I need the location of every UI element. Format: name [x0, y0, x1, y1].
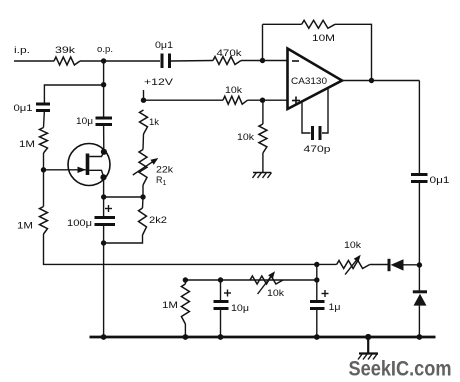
resistor 10k to ground	[237, 124, 267, 153]
svg-text:SeekIC.com: SeekIC.com	[349, 358, 452, 381]
wire +12V stub	[143, 90, 145, 100]
wire feedback up	[262, 24, 264, 60]
capacitor 0μ1 coupling	[155, 40, 173, 68]
wire 1k to 22k	[142, 134, 145, 150]
node o.p.	[97, 44, 113, 64]
node rail right	[417, 334, 423, 340]
svg-text:1k: 1k	[149, 117, 160, 127]
svg-text:o.p.: o.p.	[97, 44, 113, 54]
wire 22k to node	[142, 185, 144, 197]
diode D1	[389, 259, 419, 271]
wire 1μ branch	[316, 265, 318, 302]
resistor 1M lower	[17, 207, 48, 235]
wire 2k2 bottom	[104, 235, 143, 243]
node rail ground	[365, 334, 371, 340]
wire op node down	[103, 61, 105, 117]
svg-text:470p: 470p	[304, 144, 331, 154]
wire 1M top stub	[184, 280, 186, 284]
node source junction right	[140, 194, 145, 199]
svg-text:1μ: 1μ	[329, 302, 341, 312]
capacitor 10μ bottom	[214, 277, 250, 313]
node to left cap branch	[101, 82, 106, 87]
svg-text:10k: 10k	[225, 85, 243, 95]
potentiometer 10k right	[337, 240, 370, 275]
wire left rail to bottom	[44, 234, 337, 264]
capacitor 1μ	[310, 290, 341, 312]
resistor 1k	[140, 110, 160, 134]
node rail 10μ	[218, 334, 224, 340]
svg-text:+12V: +12V	[144, 77, 173, 87]
wire pot to diode	[370, 264, 388, 266]
svg-text:10μ: 10μ	[76, 116, 93, 126]
wire cap to 470k	[171, 60, 213, 63]
wire 10μ to rail	[220, 309, 222, 338]
node non-inverting input	[260, 98, 265, 103]
capacitor 100μ	[67, 205, 115, 228]
wire branch to left	[44, 85, 103, 104]
svg-text:1M: 1M	[17, 221, 33, 231]
wire diode to rail	[418, 306, 420, 337]
node rail 1	[101, 334, 107, 340]
svg-text:10k: 10k	[237, 132, 255, 142]
svg-text:10k: 10k	[344, 240, 362, 250]
resistor 470k	[213, 48, 242, 65]
node bias left	[183, 277, 188, 282]
svg-text:10μ: 10μ	[231, 303, 249, 313]
wire source down	[103, 177, 105, 217]
wire output	[342, 80, 419, 82]
ground rail	[90, 336, 436, 339]
svg-text:0μ1: 0μ1	[155, 40, 173, 50]
node +12V	[141, 98, 146, 103]
node output	[369, 78, 374, 83]
svg-text:1M: 1M	[162, 300, 178, 310]
svg-text:R1: R1	[156, 175, 167, 187]
wire feedback top right	[335, 24, 372, 80]
wire cap to 1M	[43, 111, 46, 128]
node 100μ bottom	[101, 240, 106, 245]
capacitor 0μ1 input	[14, 103, 51, 113]
wire +12V to 10k	[144, 99, 224, 101]
resistor 1M bottom	[162, 284, 189, 324]
svg-text:2k2: 2k2	[149, 215, 167, 225]
diode D2	[413, 292, 427, 306]
wire feedback top left	[263, 23, 302, 25]
svg-text:1M: 1M	[19, 139, 35, 149]
wire 22k node to 2k2	[142, 197, 145, 208]
capacitor 10μ upper	[76, 116, 112, 126]
resistor 10k upper	[223, 85, 248, 104]
wire 470k to inverting input	[241, 60, 288, 62]
resistor 1M upper	[19, 128, 48, 154]
svg-text:100μ: 100μ	[67, 218, 92, 228]
node feedback bottom	[417, 262, 422, 267]
wire 1M to gate node	[43, 153, 45, 207]
wire right rail vertical	[418, 81, 420, 175]
wire junction to source	[104, 196, 143, 198]
resistor 39k	[54, 45, 80, 65]
wire 1M to rail	[184, 324, 186, 337]
node 1μ top	[314, 277, 319, 282]
wire 100μ to rail	[103, 225, 105, 338]
capacitor 470p	[302, 88, 331, 155]
wire 1μ to rail	[316, 309, 318, 338]
svg-text:i.p.: i.p.	[14, 45, 30, 55]
svg-text:10k: 10k	[267, 288, 285, 298]
node rail 1μ	[314, 334, 320, 340]
svg-text:0μ1: 0μ1	[430, 175, 450, 185]
op-amp U1 CA3130	[288, 49, 343, 110]
svg-text:470k: 470k	[217, 48, 243, 58]
wire 10k to non-inverting input	[248, 99, 288, 101]
svg-text:10M: 10M	[312, 33, 335, 43]
wire node to 10k vertical	[262, 100, 264, 124]
wire cap to drain	[103, 125, 105, 152]
wire input i.p.	[14, 60, 54, 62]
node source junction	[101, 194, 106, 199]
svg-text:0μ1: 0μ1	[14, 103, 33, 113]
resistor 2k2	[139, 208, 168, 235]
svg-text:CA3130: CA3130	[291, 76, 327, 86]
potentiometer R1 22k	[133, 150, 174, 188]
ground G1	[253, 173, 272, 179]
potentiometer 10k left	[250, 271, 285, 298]
node gate	[41, 167, 46, 172]
transistor Q1	[44, 144, 111, 186]
wire 39k to cap	[80, 60, 160, 62]
svg-text:39k: 39k	[55, 45, 76, 55]
wire 10k to ground	[262, 153, 264, 173]
wire bias mid	[185, 279, 316, 281]
node rail 1M	[183, 334, 189, 340]
svg-text:22k: 22k	[156, 165, 174, 175]
wire cap to diode node	[418, 182, 420, 293]
node pot left	[314, 262, 319, 267]
ground G2	[358, 337, 378, 360]
resistor 10M	[302, 20, 335, 43]
node inverting input	[260, 58, 265, 63]
capacitor 0μ1 output	[411, 175, 450, 186]
